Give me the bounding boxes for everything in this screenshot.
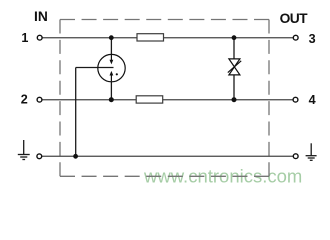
svg-text:4: 4 — [309, 93, 316, 107]
svg-text:1: 1 — [21, 31, 28, 45]
svg-text:2: 2 — [21, 92, 28, 106]
svg-text:OUT: OUT — [280, 11, 308, 26]
svg-text:IN: IN — [34, 9, 48, 24]
svg-text:3: 3 — [309, 32, 316, 46]
